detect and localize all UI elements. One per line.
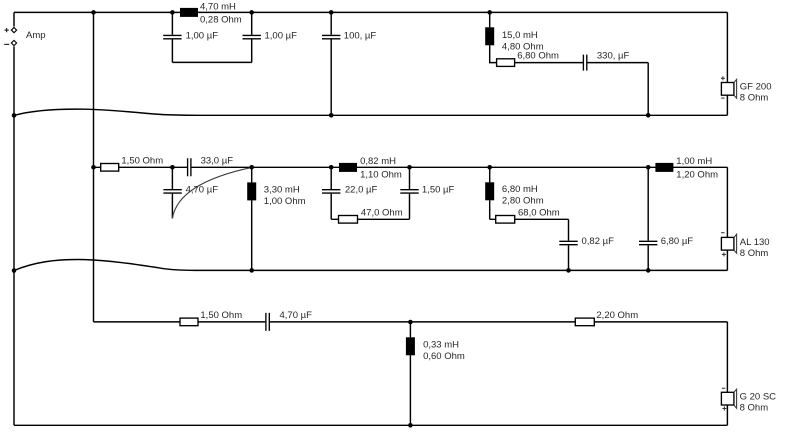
node top-2 [170, 10, 175, 15]
node mid-0 [91, 165, 96, 170]
node return-2 [329, 113, 334, 118]
node top-4 [329, 10, 334, 15]
svg-text:8 Ohm: 8 Ohm [740, 403, 769, 414]
svg-text:1,00 Ohm: 1,00 Ohm [264, 196, 306, 207]
amp terminal + [11, 28, 16, 33]
wire left bus upper [13, 12, 15, 26]
node mid-6 [646, 165, 651, 170]
svg-text:4,70 mH: 4,70 mH [200, 2, 236, 13]
wire top rail [14, 11, 727, 13]
node midret-1 [249, 268, 254, 273]
svg-text:2,20 Ohm: 2,20 Ohm [596, 310, 638, 321]
inductor L5 6.80mH [489, 167, 491, 182]
capacitor C10 6.80uF [647, 167, 649, 240]
svg-text:4,70 µF: 4,70 µF [280, 310, 313, 321]
speaker G 20 SC [726, 322, 728, 425]
svg-text:6,80 Ohm: 6,80 Ohm [517, 50, 559, 61]
node top-5 [487, 10, 492, 15]
svg-text:GF 200: GF 200 [740, 81, 772, 92]
svg-text:AL 130: AL 130 [740, 237, 770, 248]
svg-text:1,00 µF: 1,00 µF [186, 30, 219, 41]
capacitor C3 100uF [330, 12, 332, 34]
svg-text:8 Ohm: 8 Ohm [740, 93, 769, 104]
inductor L2 15.0mH [489, 12, 491, 27]
svg-text:6,80 µF: 6,80 µF [661, 236, 694, 247]
node mid-2 [249, 165, 254, 170]
wire bus2 vertical [93, 12, 95, 322]
speaker GF 200 [726, 12, 728, 115]
node mid-1 [170, 165, 175, 170]
resistor R1 6.80 Ohm [497, 62, 583, 64]
node mid-4 [407, 165, 412, 170]
node midret-2 [566, 268, 571, 273]
wire mid return rail [14, 260, 727, 271]
capacitor C4 330uF [583, 55, 586, 71]
svg-text:0,28 Ohm: 0,28 Ohm [200, 15, 242, 26]
node bot-2 [408, 423, 413, 428]
resistor R3 47.0 Ohm [331, 218, 409, 220]
resistor R5 1.50 Ohm [180, 318, 198, 326]
wire bottom rail [14, 424, 727, 426]
svg-text:68,0 Ohm: 68,0 Ohm [518, 207, 560, 218]
svg-text:22,0 µF: 22,0 µF [345, 185, 378, 196]
capacitor C9 0.82uF [568, 219, 570, 240]
svg-text:0,60 Ohm: 0,60 Ohm [423, 351, 465, 362]
svg-text:1,20 Ohm: 1,20 Ohm [676, 170, 718, 181]
node midret-0 [12, 268, 17, 273]
amp + sign [5, 28, 9, 32]
speaker AL 130 [726, 167, 728, 270]
resistor R6 2.20 Ohm [575, 318, 594, 326]
amp terminal - [11, 40, 16, 45]
svg-text:0,82 mH: 0,82 mH [360, 156, 396, 167]
svg-text:15,0 mH: 15,0 mH [502, 30, 538, 41]
inductor L6 1.00mH [655, 163, 673, 172]
capacitor C2 1.00uF [251, 39, 253, 62]
inductor L4 0.82mH [339, 163, 357, 172]
svg-text:8 Ohm: 8 Ohm [740, 248, 769, 259]
capacitor C8 1.50uF [409, 194, 411, 220]
node return-1 [12, 113, 17, 118]
amp - sign [4, 43, 9, 45]
svg-text:6,80 mH: 6,80 mH [502, 184, 538, 195]
svg-text:1,50 µF: 1,50 µF [422, 185, 455, 196]
svg-text:330, µF: 330, µF [597, 50, 630, 61]
inductor L7 0.33mH [409, 322, 411, 337]
node bot-1 [408, 320, 413, 325]
svg-text:G 20 SC: G 20 SC [740, 391, 777, 402]
resistor R4 68.0 Ohm [490, 218, 569, 220]
inductor L1 4.70mH [180, 8, 198, 17]
node mid-3 [329, 165, 334, 170]
svg-text:1,00 mH: 1,00 mH [676, 156, 712, 167]
resistor R2 1.50 Ohm [101, 164, 119, 172]
svg-text:2,80 Ohm: 2,80 Ohm [502, 196, 544, 207]
node top-1 [91, 10, 96, 15]
capacitor C6 4.70uF [171, 167, 173, 189]
svg-text:3,30 mH: 3,30 mH [264, 184, 300, 195]
node top-3 [249, 10, 254, 15]
svg-text:0,33 mH: 0,33 mH [423, 339, 459, 350]
svg-text:4,70 µF: 4,70 µF [186, 185, 219, 196]
wire loop bottom [172, 61, 251, 63]
svg-text:1,50 Ohm: 1,50 Ohm [200, 310, 242, 321]
svg-text:1,50 Ohm: 1,50 Ohm [121, 156, 163, 167]
wire left bus lower [13, 46, 15, 425]
wire arc c6 to node [172, 167, 251, 218]
svg-text:1,00 µF: 1,00 µF [265, 30, 298, 41]
inductor L3 3.30mH [251, 167, 253, 182]
capacitor C5 33.0uF [188, 158, 191, 176]
capacitor C1 1.00uF [171, 12, 173, 34]
svg-text:47,0 Ohm: 47,0 Ohm [361, 207, 403, 218]
wire mid rail [94, 166, 728, 168]
capacitor C11 4.70uF [266, 313, 269, 331]
capacitor C7 22.0uF [330, 167, 332, 189]
node return-3 [646, 113, 651, 118]
svg-text:Amp: Amp [26, 30, 46, 41]
svg-text:33,0 µF: 33,0 µF [201, 156, 234, 167]
wire bottom branch [94, 321, 728, 323]
node midret-3 [646, 268, 651, 273]
node mid-5 [487, 165, 492, 170]
wire top return rail [14, 109, 727, 115]
svg-text:1,10 Ohm: 1,10 Ohm [360, 170, 402, 181]
svg-text:0,82 µF: 0,82 µF [582, 236, 615, 247]
svg-text:100, µF: 100, µF [344, 30, 377, 41]
